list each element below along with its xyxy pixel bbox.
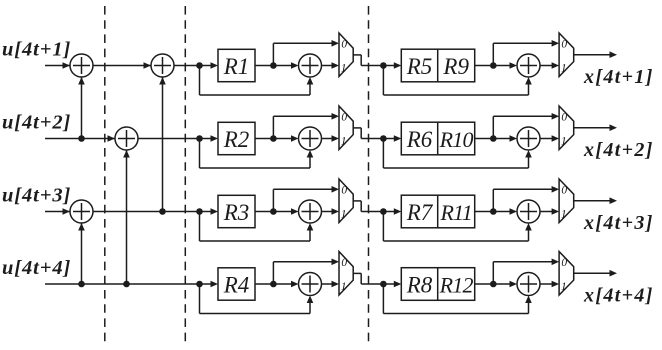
- svg-text:0: 0: [561, 111, 567, 123]
- svg-text:R12: R12: [439, 272, 474, 297]
- svg-text:R3: R3: [223, 200, 250, 225]
- svg-text:0: 0: [341, 257, 347, 269]
- svg-text:1: 1: [341, 281, 347, 293]
- svg-text:x[4t+1]: x[4t+1]: [583, 66, 654, 88]
- svg-text:1: 1: [561, 135, 567, 147]
- svg-text:x[4t+2]: x[4t+2]: [583, 139, 654, 161]
- svg-text:R4: R4: [223, 272, 250, 297]
- svg-text:1: 1: [561, 62, 567, 74]
- svg-text:u[4t+4]: u[4t+4]: [2, 257, 71, 279]
- svg-text:R10: R10: [439, 127, 474, 152]
- svg-text:R6: R6: [406, 127, 433, 152]
- svg-text:R2: R2: [223, 127, 250, 152]
- svg-text:0: 0: [561, 38, 567, 50]
- svg-text:R5: R5: [406, 54, 433, 79]
- svg-text:u[4t+1]: u[4t+1]: [2, 38, 71, 60]
- svg-text:0: 0: [341, 38, 347, 50]
- svg-text:u[4t+2]: u[4t+2]: [2, 111, 71, 133]
- svg-text:1: 1: [561, 208, 567, 220]
- svg-text:1: 1: [561, 281, 567, 293]
- svg-text:u[4t+3]: u[4t+3]: [2, 184, 71, 206]
- svg-text:0: 0: [561, 257, 567, 269]
- svg-text:x[4t+3]: x[4t+3]: [583, 212, 654, 234]
- svg-text:1: 1: [341, 62, 347, 74]
- svg-text:R7: R7: [406, 200, 434, 225]
- svg-text:0: 0: [341, 184, 347, 196]
- svg-text:0: 0: [561, 184, 567, 196]
- svg-text:1: 1: [341, 135, 347, 147]
- svg-text:R8: R8: [406, 272, 433, 297]
- svg-text:0: 0: [341, 111, 347, 123]
- svg-text:R11: R11: [439, 200, 471, 225]
- svg-text:1: 1: [341, 208, 347, 220]
- svg-text:R9: R9: [442, 54, 469, 79]
- svg-text:R1: R1: [223, 54, 250, 79]
- svg-text:x[4t+4]: x[4t+4]: [583, 284, 654, 306]
